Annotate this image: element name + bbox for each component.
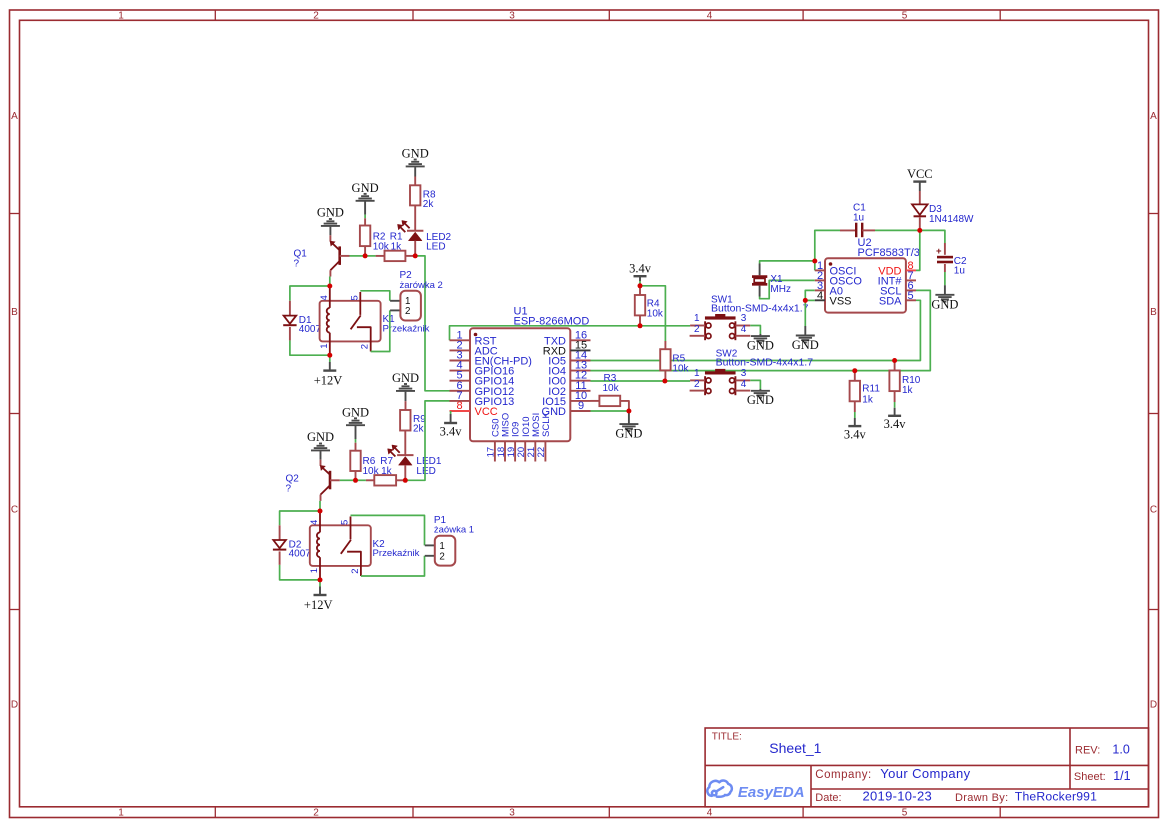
led LED1 [404, 431, 406, 456]
svg-text:22: 22 [536, 447, 547, 458]
svg-text:Button-SMD-4x4x1.7: Button-SMD-4x4x1.7 [711, 303, 809, 315]
resistor R7 [366, 479, 374, 481]
relay K2 switch arm [341, 540, 351, 554]
svg-text:2k: 2k [413, 424, 425, 435]
connector P1 [425, 544, 435, 546]
svg-text:żaówka 1: żaówka 1 [434, 525, 474, 536]
ground below R3 node [628, 411, 630, 424]
svg-text:+12V: +12V [304, 598, 333, 612]
svg-text:REV:: REV: [1075, 744, 1100, 756]
svg-text:1k: 1k [862, 395, 874, 406]
wire node to C2 [920, 230, 945, 243]
ground above R6 [346, 424, 365, 426]
svg-text:1: 1 [694, 313, 700, 324]
power +12V lower [319, 580, 321, 587]
relay K2 contact to pin 2 [347, 552, 361, 576]
svg-text:B: B [11, 307, 18, 318]
svg-text:4: 4 [817, 290, 823, 302]
svg-text:2: 2 [313, 10, 319, 21]
svg-text:4007: 4007 [299, 324, 322, 335]
wire Q1 collector to node [329, 277, 331, 287]
wire LED1 node to GPIO13 [405, 401, 450, 480]
wire Q1 base to R2/R1 node [350, 255, 366, 257]
svg-text:1: 1 [694, 368, 700, 379]
wire D1 top to node [290, 286, 330, 301]
svg-text:GND: GND [352, 181, 379, 195]
ground above R9 [396, 390, 415, 392]
svg-text:3.4v: 3.4v [440, 425, 463, 439]
relay K2 body [310, 525, 371, 566]
svg-text:GND: GND [317, 206, 344, 220]
U1 left pins [450, 339, 471, 341]
ic U2 body [825, 258, 906, 312]
svg-text:+: + [936, 246, 942, 257]
wire D2 bottom to node [280, 565, 320, 580]
svg-text:LED: LED [426, 241, 445, 252]
svg-text:2: 2 [360, 344, 371, 349]
relay K1 contact to pin 2 [357, 327, 371, 351]
svg-text:GND: GND [747, 393, 774, 407]
relay K1 coil pin line [329, 286, 331, 308]
EasyEDA logo [707, 781, 732, 797]
svg-text:5: 5 [907, 290, 913, 302]
transistor Q1 [329, 235, 331, 241]
wire GND pin9 to R3 node [591, 410, 629, 412]
node D1 bottom / K1 coil / +12V [327, 353, 332, 358]
connector P2 [390, 300, 400, 302]
svg-text:8: 8 [456, 400, 462, 412]
svg-text:SCLK: SCLK [541, 412, 552, 437]
U1 pin 15 RXD (black) [570, 349, 590, 351]
svg-text:1: 1 [319, 344, 330, 349]
wire A0 to VSS node [805, 290, 815, 300]
svg-text:TheRocker991: TheRocker991 [1015, 790, 1097, 804]
svg-text:1: 1 [118, 808, 124, 819]
resistor R3 [591, 400, 600, 402]
svg-text:VCC: VCC [475, 406, 498, 418]
svg-text:4: 4 [707, 10, 713, 21]
node R7 right / LED1 [403, 478, 408, 483]
svg-text:2k: 2k [423, 199, 435, 210]
wire IO0 to R5/SW2 net [591, 380, 691, 382]
svg-text:TITLE:: TITLE: [712, 731, 742, 742]
svg-text:1N4148W: 1N4148W [929, 214, 974, 225]
svg-text:15: 15 [575, 339, 587, 351]
svg-text:ESP-8266MOD: ESP-8266MOD [514, 316, 590, 328]
wire VSS to node [805, 299, 815, 301]
svg-text:żarówka 2: żarówka 2 [400, 280, 443, 291]
svg-text:A: A [1150, 111, 1157, 122]
svg-text:3: 3 [741, 313, 747, 324]
wire RST to R4/SW1 net [450, 326, 691, 341]
svg-text:1k: 1k [391, 241, 403, 252]
wire SW2 pin3 to GND [750, 380, 760, 389]
svg-text:3: 3 [509, 808, 515, 819]
svg-text:5: 5 [349, 295, 360, 300]
svg-text:VSS: VSS [830, 295, 852, 307]
wire C1 right to node [875, 229, 920, 231]
resistor R1 [376, 255, 385, 257]
relay K1 switch pin 5 [359, 292, 361, 315]
wire K1 pin2 to P2 pin2 [371, 310, 390, 351]
U1 bottom pins [494, 441, 496, 461]
capacitor C1 [840, 229, 856, 231]
svg-text:GND: GND [392, 371, 419, 385]
svg-text:3: 3 [741, 368, 747, 379]
svg-text:4: 4 [319, 295, 330, 300]
title block [705, 728, 1148, 807]
diode D3 [919, 191, 921, 204]
wire 3.4v node down to R5 [640, 286, 665, 341]
ground below SW2 [759, 389, 761, 391]
wire SW1 pin3 to GND [750, 326, 760, 335]
svg-text:GND: GND [402, 147, 429, 161]
svg-text:?: ? [286, 484, 292, 495]
wire Q2 collector to node [319, 501, 321, 511]
wire K1 pin5 to P2 pin1 [360, 291, 390, 301]
node IO4 / R11 [852, 368, 857, 373]
node Q1 collector / D1 / K1 coil [327, 284, 332, 289]
power +12V upper [329, 355, 331, 362]
svg-text:4: 4 [741, 324, 747, 335]
resistor R6 [355, 443, 357, 451]
relay K1 body [320, 301, 381, 342]
svg-text:R11: R11 [862, 384, 880, 395]
resistor R10 [894, 361, 896, 371]
node Q2 collector / D2 / K2 coil [318, 509, 323, 514]
node D2 bottom / K2 coil / +12V [318, 577, 323, 582]
svg-text:1.0: 1.0 [1112, 742, 1129, 756]
svg-text:Sheet:: Sheet: [1074, 771, 1106, 783]
power 3.4v below R11 [854, 412, 856, 418]
svg-text:3.4v: 3.4v [884, 417, 907, 431]
svg-text:C: C [1150, 505, 1157, 516]
svg-text:Date:: Date: [815, 792, 841, 804]
node C1/OSCI junction [812, 259, 817, 264]
U2 right pins [906, 269, 916, 271]
resistor R2 [364, 218, 366, 225]
svg-text:10k: 10k [647, 309, 664, 320]
wire C1 left / X1 top to OSCI [815, 230, 840, 270]
wire gnd to R6 [355, 439, 357, 443]
capacitor C2 (polarized) [944, 243, 946, 255]
svg-text:2019-10-23: 2019-10-23 [863, 789, 933, 804]
wire IO5 to SDA net [591, 300, 921, 360]
wire VDD to D3 node [916, 230, 920, 270]
wire K2 pin2 to P1 pin2 [361, 556, 425, 576]
transistor Q2 [320, 460, 322, 466]
wire Q2 base to R6/R7 node [340, 479, 356, 481]
resistor R4 [639, 286, 641, 295]
svg-text:GND: GND [307, 430, 334, 444]
svg-text:1: 1 [309, 568, 320, 573]
node IO5 / R10 [892, 358, 897, 363]
ground above R8 [406, 165, 425, 167]
U2 left pins [815, 269, 825, 271]
svg-text:1k: 1k [902, 385, 914, 396]
svg-text:4007: 4007 [289, 549, 312, 560]
relay K1 switch arm [351, 315, 361, 329]
frame column ticks [214, 10, 216, 20]
resistor R11 [854, 371, 856, 381]
svg-text:PCF8583T/3: PCF8583T/3 [858, 247, 920, 259]
svg-text:VCC: VCC [907, 167, 933, 181]
diode D2 [279, 525, 281, 540]
ground Q2 emitter [311, 449, 330, 451]
wire gnd to R2 [364, 215, 366, 219]
svg-text:3.4v: 3.4v [844, 428, 867, 442]
svg-text:2: 2 [694, 324, 700, 335]
svg-text:2: 2 [439, 551, 444, 562]
resistor R9 [405, 401, 407, 410]
node Q2 base junction [353, 478, 358, 483]
node 3.4v / R4 [638, 283, 643, 288]
svg-text:+12V: +12V [314, 374, 343, 388]
svg-text:1/1: 1/1 [1113, 769, 1130, 783]
svg-text:SDA: SDA [879, 295, 902, 307]
node R5 bottom on IO0 net [662, 379, 667, 384]
resistor R5 [664, 341, 666, 349]
relay K2 switch pin 5 [350, 517, 352, 540]
relay K2 coil [317, 532, 320, 557]
wire D2 top to node [280, 511, 320, 525]
node R4 bottom on RST net [638, 323, 643, 328]
node A0/VSS/GND [803, 298, 808, 303]
relay K1 coil [327, 308, 330, 333]
svg-text:Button-SMD-4x4x1.7: Button-SMD-4x4x1.7 [716, 357, 814, 369]
svg-text:1: 1 [118, 10, 124, 21]
wire LED2 node to GPIO12 [415, 256, 450, 391]
svg-text:4: 4 [741, 379, 747, 390]
svg-text:Przekaźnik: Przekaźnik [373, 548, 420, 559]
diode D1 [289, 301, 291, 316]
svg-text:2: 2 [405, 306, 410, 317]
svg-text:10k: 10k [603, 383, 620, 394]
svg-text:1k: 1k [381, 466, 393, 477]
svg-text:5: 5 [902, 10, 908, 21]
svg-text:2: 2 [313, 808, 319, 819]
svg-text:1u: 1u [954, 266, 965, 277]
power 3.4v at U1 VCC [450, 411, 452, 414]
U1 right pins [570, 339, 590, 341]
svg-text:4: 4 [707, 808, 713, 819]
wire D1 bottom to node [290, 340, 330, 355]
svg-text:GND: GND [931, 298, 958, 312]
svg-text:GND: GND [615, 426, 642, 440]
svg-text:2: 2 [350, 569, 361, 574]
svg-text:Drawn By:: Drawn By: [955, 792, 1008, 804]
svg-text:10k: 10k [672, 364, 689, 375]
ground Q1 emitter [321, 225, 340, 227]
svg-text:9: 9 [578, 400, 584, 412]
svg-text:2: 2 [694, 379, 700, 390]
svg-text:D: D [11, 700, 18, 711]
svg-text:GND: GND [747, 338, 774, 352]
wire R2 node to R1 [365, 255, 376, 257]
frame row ticks [10, 213, 20, 215]
wire C2 bottom to GND [944, 272, 946, 285]
node Q1 base junction [363, 253, 368, 258]
relay K2 coil pin line [319, 511, 321, 532]
power 3.4v above R4 [634, 275, 647, 277]
svg-text:MHz: MHz [770, 284, 791, 295]
svg-text:GND: GND [792, 338, 819, 352]
svg-text:Your Company: Your Company [880, 766, 970, 781]
node R1 right / LED2 [413, 253, 418, 258]
svg-text:D: D [1150, 700, 1157, 711]
wire IO4 to SCL net [591, 290, 931, 370]
led LED2 [414, 205, 416, 230]
svg-text:4: 4 [309, 520, 320, 525]
ground below SW1 [759, 334, 761, 336]
wire K2 pin5 to P1 pin1 [351, 515, 425, 545]
U2 pin 4 VSS (black) [815, 299, 825, 301]
svg-text:Sheet_1: Sheet_1 [769, 740, 821, 756]
wire X1 bottom to OSCO [760, 280, 815, 298]
svg-text:?: ? [294, 259, 300, 270]
node C1/D3/C2/VDD [917, 228, 922, 233]
svg-text:A: A [11, 111, 18, 122]
power 3.4v below R10 [894, 402, 896, 408]
svg-text:C: C [11, 505, 18, 516]
svg-text:Company:: Company: [815, 769, 871, 781]
ic U1 body [470, 328, 570, 441]
U1 pin 8 VCC (red) [450, 410, 471, 412]
wire node to GND [804, 300, 806, 326]
ground above R2 [356, 200, 375, 202]
svg-text:LED: LED [416, 466, 435, 477]
resistor R8 [414, 177, 416, 186]
svg-text:B: B [1150, 307, 1157, 318]
svg-text:5: 5 [902, 808, 908, 819]
svg-text:3.4v: 3.4v [629, 262, 652, 276]
node R3 / GND wire [626, 409, 631, 414]
svg-text:RXD: RXD [543, 345, 566, 357]
svg-text:EasyEDA: EasyEDA [738, 784, 805, 801]
crystal X1 [759, 264, 761, 276]
wire X1 top [760, 261, 815, 264]
wire R6 node to R7 [356, 479, 366, 481]
svg-text:1u: 1u [853, 212, 864, 223]
svg-text:5: 5 [340, 520, 351, 525]
svg-text:GND: GND [342, 406, 369, 420]
svg-text:3: 3 [509, 10, 515, 21]
ground below U2 [804, 326, 806, 336]
ground below C2 [944, 285, 946, 295]
